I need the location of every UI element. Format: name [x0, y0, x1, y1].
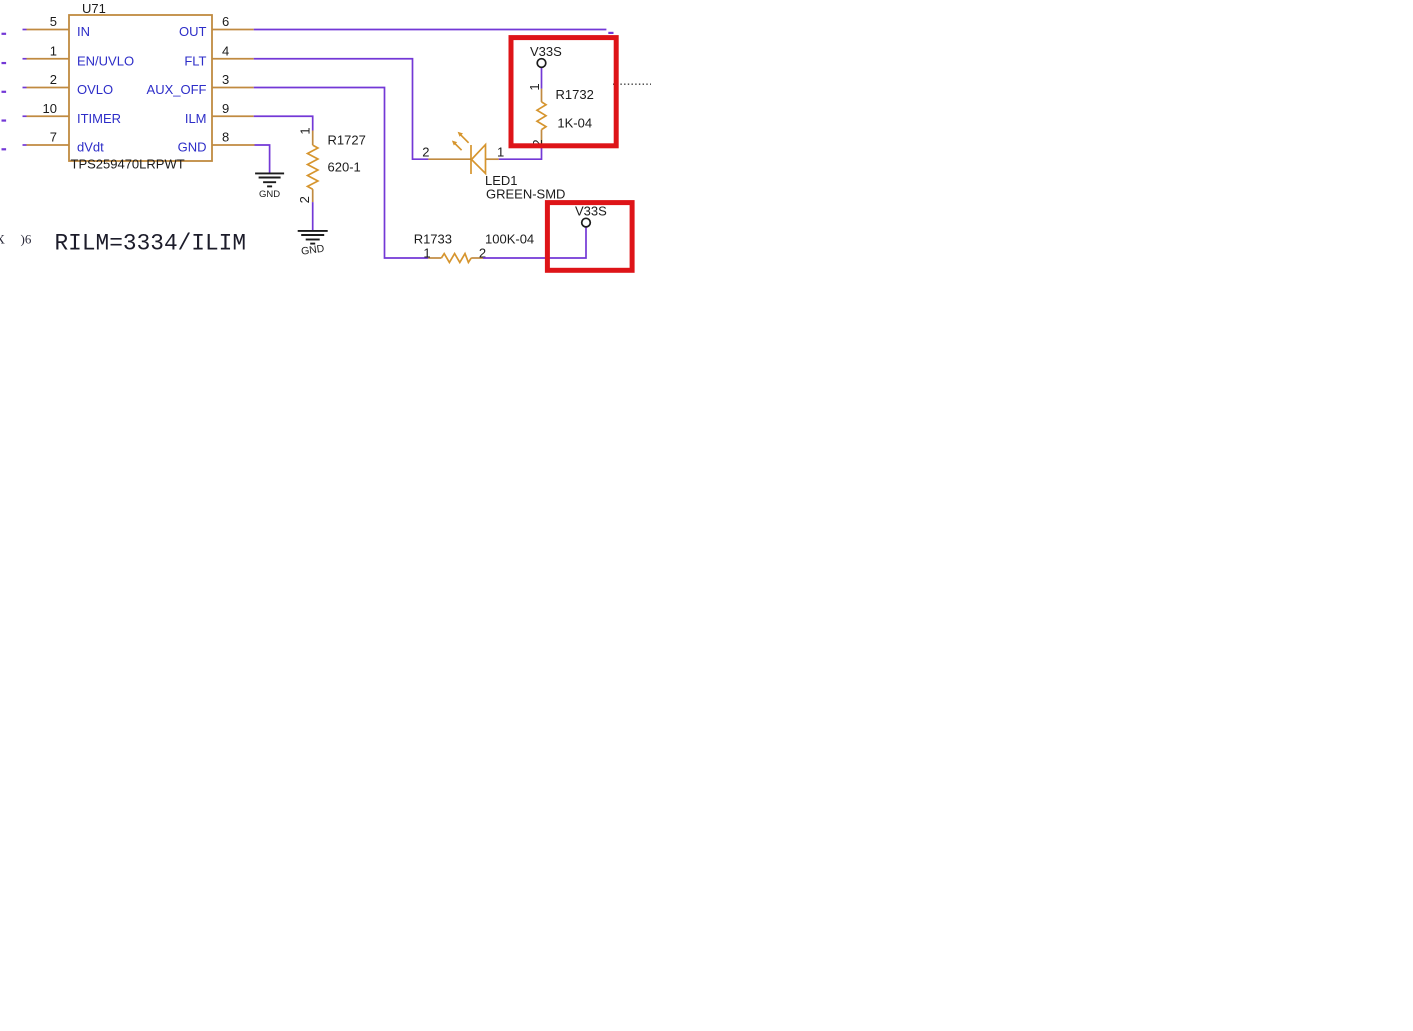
wire LED1 pin1 to R1732: [499, 147, 542, 159]
svg-text:3: 3: [222, 72, 229, 87]
svg-text:1: 1: [497, 145, 504, 160]
LED1 light arrow lower: [452, 141, 462, 151]
power symbol V33S (lower): [582, 218, 591, 227]
svg-text:OVLO: OVLO: [77, 82, 113, 97]
svg-text:2: 2: [297, 196, 312, 203]
svg-text:1K-04: 1K-04: [557, 116, 592, 131]
svg-text:TPS259470LRPWT: TPS259470LRPWT: [71, 157, 185, 172]
svg-text:ITIMER: ITIMER: [77, 111, 121, 126]
svg-text:5: 5: [50, 14, 57, 29]
svg-text:9: 9: [222, 101, 229, 116]
resistor R1733 lead right: [471, 257, 483, 259]
resistor R1727 lead bottom: [312, 189, 314, 202]
svg-text:R1733: R1733: [414, 232, 452, 247]
wire AUX_OFF to R1733 pin1: [254, 88, 429, 259]
pin 5 IN lead: [23, 29, 70, 31]
pin 8 GND lead: [212, 144, 255, 146]
svg-text:)6: )6: [21, 231, 32, 246]
resistor R1732 lead bottom: [541, 130, 543, 148]
svg-text:GND: GND: [178, 140, 207, 155]
svg-text:1: 1: [423, 246, 430, 261]
wire R1733 pin2 to V33S (lower): [483, 227, 586, 258]
off-page dash pin 5: [2, 33, 7, 35]
svg-text:U71: U71: [82, 1, 106, 16]
svg-text:1: 1: [50, 43, 57, 58]
resistor R1733 body: [441, 254, 471, 263]
svg-text:GREEN-SMD: GREEN-SMD: [486, 186, 565, 201]
LED1 triangle: [472, 145, 486, 174]
off-page dash pin 7: [2, 148, 7, 150]
highlight box around R1732: [511, 38, 616, 146]
svg-text:V33S: V33S: [530, 44, 562, 59]
wire R1732 pin1 to V33S: [541, 67, 543, 88]
pin 7 dVdt lead: [23, 144, 70, 146]
wire stub right of OUT: [608, 32, 613, 34]
highlight box around lower V33S: [547, 203, 632, 271]
svg-text:7: 7: [50, 130, 57, 145]
LED1 left lead (pin 2): [428, 158, 471, 160]
wire pin8 to ground: [255, 145, 270, 173]
resistor R1732 body: [537, 102, 546, 130]
svg-text:X: X: [0, 231, 6, 246]
svg-text:100K-04: 100K-04: [485, 232, 534, 247]
dotted leader line: [613, 83, 651, 85]
LED1 right lead (pin 1): [486, 158, 499, 160]
wire R1727 pin2 to ground: [312, 202, 314, 230]
pin 4 FLT lead: [212, 58, 254, 60]
wire net OUT: [254, 29, 607, 31]
op-amp U71 body: [69, 15, 212, 161]
svg-text:8: 8: [222, 130, 229, 145]
off-page dash pin 2: [2, 91, 7, 93]
svg-text:IN: IN: [77, 24, 90, 39]
off-page dash pin 10: [2, 119, 7, 121]
ground symbol GND1: [255, 173, 284, 186]
svg-text:GND: GND: [259, 189, 280, 200]
svg-text:OUT: OUT: [179, 24, 207, 39]
wire ILM to R1727 pin1: [254, 116, 313, 130]
svg-text:R1732: R1732: [556, 87, 594, 102]
LED1 cathode bar: [470, 145, 472, 174]
svg-text:1: 1: [298, 127, 313, 134]
resistor R1732 lead top: [541, 89, 543, 102]
resistor R1727 body: [308, 145, 318, 189]
svg-text:1: 1: [527, 83, 542, 90]
pin 6 OUT lead: [212, 29, 254, 31]
LED1 light arrow upper: [458, 132, 469, 143]
power symbol V33S (upper): [537, 59, 546, 68]
svg-text:FLT: FLT: [184, 53, 206, 68]
svg-text:V33S: V33S: [575, 204, 607, 219]
svg-text:R1727: R1727: [328, 132, 366, 147]
off-page dash pin 1: [2, 62, 7, 64]
pin 10 ITIMER lead: [23, 115, 70, 117]
ground symbol GND2: [298, 231, 328, 244]
svg-text:2: 2: [422, 145, 429, 160]
svg-text:6: 6: [222, 14, 229, 29]
wire FLT to LED cathode: [254, 59, 429, 159]
svg-text:dVdt: dVdt: [77, 140, 104, 155]
resistor R1727 lead top: [312, 131, 314, 146]
pin 9 ILM lead: [212, 115, 254, 117]
pin 3 AUX_OFF lead: [212, 87, 254, 89]
svg-text:620-1: 620-1: [328, 160, 361, 175]
svg-text:EN/UVLO: EN/UVLO: [77, 53, 134, 68]
svg-text:RILM=3334/ILIM: RILM=3334/ILIM: [55, 230, 247, 256]
pin 2 OVLO lead: [23, 87, 70, 89]
svg-text:AUX_OFF: AUX_OFF: [147, 82, 207, 97]
svg-text:10: 10: [43, 101, 57, 116]
svg-text:2: 2: [50, 72, 57, 87]
svg-text:ILM: ILM: [185, 111, 207, 126]
resistor R1733 lead left: [428, 257, 441, 259]
svg-text:4: 4: [222, 43, 229, 58]
pin 1 EN/UVLO lead: [23, 58, 70, 60]
